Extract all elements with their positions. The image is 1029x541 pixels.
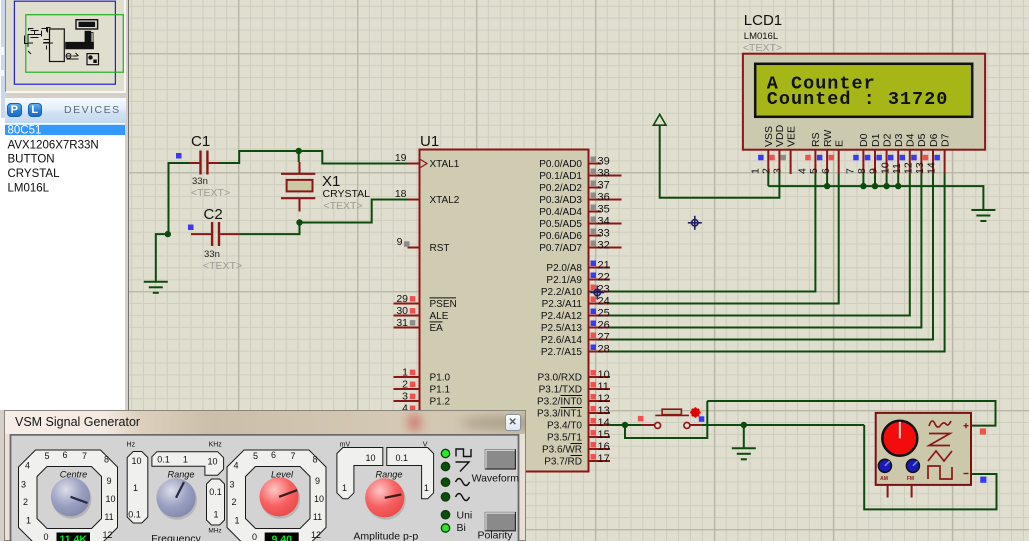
svg-text:3: 3 (229, 480, 234, 490)
svg-text:E: E (834, 140, 846, 147)
preview mini generator (87, 54, 99, 65)
svg-text:11: 11 (891, 163, 903, 174)
capacitor C2 (191, 222, 239, 246)
terminal marker square lcd pin 8 (865, 155, 871, 161)
node junction bus pin 8 (872, 183, 878, 189)
generator knob pointer (899, 422, 901, 439)
svg-text:D0: D0 (858, 133, 870, 147)
wire crystal top lead green part (298, 151, 300, 162)
svg-text:D1: D1 (870, 133, 882, 147)
svg-text:0: 0 (43, 532, 48, 541)
svg-text:3: 3 (402, 391, 408, 403)
lcd pin 1 stub (767, 150, 769, 174)
svg-text:8: 8 (104, 455, 109, 465)
svg-text:14: 14 (926, 162, 938, 174)
svg-text:6: 6 (820, 168, 832, 174)
svg-text:0.1: 0.1 (209, 487, 222, 497)
waveform icon sine1 (456, 479, 470, 486)
svg-text:2: 2 (761, 168, 773, 174)
dial plate Centre (19, 450, 118, 541)
generator waveform glyph sawtooth (929, 434, 950, 446)
svg-text:5: 5 (44, 451, 49, 461)
svg-text:P0.4/AD4: P0.4/AD4 (539, 207, 582, 218)
terminal marker red square button left (638, 416, 644, 422)
svg-text:D4: D4 (905, 133, 917, 147)
svg-text:32: 32 (598, 240, 610, 252)
svg-text:P1.0: P1.0 (430, 373, 451, 384)
preview mini button wires (66, 53, 78, 59)
pin 11 P3.1/TXD (589, 388, 611, 390)
svg-text:<TEXT>: <TEXT> (191, 187, 230, 199)
lcd pin 7 stub (862, 150, 864, 174)
close button (505, 414, 522, 431)
svg-text:11.4K: 11.4K (59, 533, 87, 541)
svg-text:P0.0/AD0: P0.0/AD0 (539, 159, 582, 170)
svg-text:P2.2/A10: P2.2/A10 (541, 287, 583, 298)
knob Centre (52, 479, 92, 519)
generator body (876, 413, 971, 485)
knob amplitude range red (366, 480, 406, 520)
svg-text:31: 31 (396, 317, 408, 329)
svg-text:6: 6 (271, 450, 276, 460)
svg-text:Polarity: Polarity (477, 530, 513, 541)
svg-text:12: 12 (903, 162, 915, 174)
preview mini crystal circuit (25, 28, 51, 50)
svg-text:KHz: KHz (209, 442, 223, 449)
wire lcd pin 8 to bus (874, 174, 876, 186)
terminal marker square lcd pin 2 (769, 155, 775, 161)
label plus terminal (964, 423, 969, 428)
pin 32 P0.7/AD7 (589, 247, 622, 249)
wire top feed to generator plus (707, 401, 995, 426)
svg-text:10: 10 (105, 494, 115, 504)
svg-text:Counted : 31720: Counted : 31720 (767, 89, 949, 110)
button Waveform (485, 450, 515, 469)
terminal marker square lcd pin 1 (758, 155, 764, 161)
svg-text:P2.7/A15: P2.7/A15 (541, 347, 583, 358)
panel body (11, 435, 519, 541)
svg-text:4: 4 (25, 461, 30, 471)
wire P2 row y=351.5 to lcd column x=944.6 (610, 174, 945, 352)
svg-text:1: 1 (342, 483, 347, 493)
svg-text:P3.4/T0: P3.4/T0 (547, 421, 582, 432)
svg-text:33: 33 (598, 228, 610, 240)
lcd pin 3 stub (790, 150, 792, 174)
svg-text:22: 22 (598, 272, 610, 284)
pin 3 stub (394, 400, 420, 402)
label DEVICES (64, 104, 121, 116)
svg-text:P2.6/A14: P2.6/A14 (541, 335, 583, 346)
svg-text:AM: AM (880, 476, 888, 482)
lcd pin 14 stub (944, 150, 946, 174)
svg-text:2: 2 (23, 497, 28, 507)
svg-text:P3.1/TXD: P3.1/TXD (539, 385, 582, 396)
component preview window (5, 0, 126, 93)
svg-text:0.1: 0.1 (157, 455, 170, 465)
waveform icon sawtooth (456, 462, 470, 472)
svg-text:19: 19 (395, 152, 407, 164)
terminal marker blue square button right (699, 416, 705, 422)
svg-text:P0.2/AD2: P0.2/AD2 (539, 183, 582, 194)
terminal marker blue square generator minus (980, 477, 986, 483)
generator knob AM blue (878, 459, 891, 472)
wire ground stem mid (743, 425, 745, 448)
frequency range plate left Hz strip (127, 452, 148, 524)
svg-text:Bi: Bi (457, 522, 466, 534)
svg-text:RW: RW (822, 130, 834, 147)
terminal marker square lcd pin 11 (900, 155, 906, 161)
terminal marker square lcd pin 9 (876, 155, 882, 161)
svg-text:Uni: Uni (457, 509, 473, 521)
svg-text:P3.2/INT0: P3.2/INT0 (537, 397, 582, 408)
pin 27 P2.6/A14 (589, 339, 611, 341)
wire P2 row y=315.5 to lcd column x=909.8 (610, 174, 910, 316)
svg-text:7: 7 (82, 451, 87, 461)
svg-text:BUTTON: BUTTON (8, 153, 55, 165)
pin 38 P0.1/AD1 (589, 175, 622, 177)
svg-text:Frequency: Frequency (151, 533, 201, 541)
wire button bypass loop (625, 401, 707, 438)
ground left (144, 282, 168, 293)
amplitude range plate right L (387, 448, 434, 499)
svg-text:D3: D3 (893, 133, 905, 147)
svg-text:D7: D7 (939, 133, 951, 147)
ground mid (732, 448, 756, 459)
svg-text:XTAL1: XTAL1 (430, 159, 460, 170)
lcd pin 5 stub (826, 150, 828, 174)
pin 16 P3.6/WR (589, 448, 611, 450)
svg-text:2: 2 (402, 379, 408, 391)
svg-text:10: 10 (314, 494, 324, 504)
pin 12 P3.2/INT0 (589, 400, 611, 402)
svg-text:Hz: Hz (127, 442, 136, 449)
svg-text:0.1: 0.1 (128, 510, 141, 520)
svg-text:12: 12 (311, 530, 321, 540)
wire to generator minus (864, 425, 996, 509)
svg-text:P1.1: P1.1 (430, 385, 451, 396)
svg-text:ALE: ALE (430, 311, 449, 322)
cursor crosshair near pin 23 (590, 286, 604, 300)
wire P2 row y=291.5 to lcd column x=815.4 (610, 174, 815, 292)
svg-text:1: 1 (424, 483, 429, 493)
svg-text:9: 9 (106, 476, 111, 486)
wire C1 right to XTAL1 pin19 (219, 151, 408, 164)
node junction bus pin 9 (883, 183, 889, 189)
knob Level red (261, 479, 301, 519)
wire lcd pin 5 to bus (826, 174, 828, 186)
pin 23 P2.2/A10 (589, 291, 611, 293)
crystal X1 (281, 162, 315, 212)
pin XTAL2 stub (408, 199, 420, 201)
button component (641, 409, 702, 428)
node junction bus pin 10 (895, 183, 901, 189)
generator waveform glyph square (928, 466, 952, 479)
terminal marker square lcd pin 13 (923, 155, 929, 161)
wire lcd pin 9 to bus (886, 174, 888, 186)
svg-text:12: 12 (102, 530, 112, 540)
svg-text:8: 8 (856, 168, 868, 174)
svg-text:3: 3 (21, 480, 26, 490)
preview mini bus blob (65, 42, 94, 49)
generator waveform glyph triangle (928, 451, 952, 461)
svg-text:RST: RST (430, 243, 450, 254)
lcd pin 12 stub (920, 150, 922, 174)
svg-text:1: 1 (183, 455, 188, 465)
svg-text:10: 10 (131, 456, 141, 466)
pin 14 P3.4/T0 (589, 424, 611, 426)
svg-text:12: 12 (598, 393, 610, 405)
button L (28, 103, 43, 118)
pin 24 P2.3/A11 (589, 303, 611, 305)
svg-text:33n: 33n (192, 176, 208, 187)
capacitor C1 (189, 151, 219, 175)
svg-text:P0.1/AD1: P0.1/AD1 (539, 171, 582, 182)
pin 13 P3.3/INT1 (589, 412, 611, 414)
wire P3.4 pin14 to button (610, 424, 641, 426)
svg-text:38: 38 (598, 168, 610, 180)
svg-text:Range: Range (167, 469, 194, 479)
waveform icon sine2 (456, 494, 470, 501)
node junction crystal top (296, 148, 302, 154)
devices header (5, 98, 126, 123)
lcd pin 6 stub (838, 150, 840, 174)
lcd pin 4 stub (814, 150, 816, 174)
svg-text:13: 13 (914, 162, 926, 174)
svg-text:1: 1 (26, 516, 31, 526)
wire ground bus under lcd (768, 186, 983, 210)
pin 22 P2.1/A9 (589, 279, 611, 281)
svg-text:9: 9 (315, 476, 320, 486)
lcd pin 11 stub (909, 150, 911, 174)
pin 15 P3.5/T1 (589, 436, 611, 438)
devices list (5, 123, 125, 411)
terminal marker square lcd pin 6 (829, 155, 835, 161)
svg-text:XTAL2: XTAL2 (430, 195, 460, 206)
frequency range plate top L-shape (152, 452, 224, 476)
wire P2 row y=303.5 to lcd column x=838.7 (610, 174, 839, 304)
svg-text:MHz: MHz (208, 528, 221, 535)
waveform icon square (456, 449, 471, 457)
terminal marker gray square pin 9 (404, 241, 410, 247)
preview mini lcd (76, 20, 98, 29)
preview mini chip U1 (50, 29, 65, 62)
svg-text:10: 10 (365, 453, 375, 463)
lcd pin 8 stub (874, 150, 876, 174)
svg-text:P2.4/A12: P2.4/A12 (541, 311, 583, 322)
wire lcd pin 7 to bus (862, 174, 864, 186)
svg-text:<TEXT>: <TEXT> (743, 42, 782, 54)
display Level value 9.40 (265, 533, 299, 541)
svg-text:15: 15 (598, 429, 610, 441)
svg-text:26: 26 (598, 320, 610, 332)
wire P2 row y=327.5 to lcd column x=921.4 (610, 174, 921, 328)
svg-text:37: 37 (598, 180, 610, 192)
led column (441, 449, 449, 457)
amplitude range plate left L (337, 448, 383, 499)
svg-text:1: 1 (402, 367, 408, 379)
dial plate Level (227, 450, 326, 541)
selected row 80C51 (5, 124, 125, 134)
terminal marker blue square at C1 (176, 153, 182, 159)
label minus terminal (964, 473, 969, 475)
svg-text:Amplitude p-p: Amplitude p-p (353, 531, 418, 541)
generator main knob red (882, 421, 917, 456)
svg-text:17: 17 (598, 453, 610, 465)
preview green border (26, 15, 124, 72)
pin 2 stub (394, 388, 420, 390)
svg-text:11: 11 (598, 381, 609, 393)
generator knob FM blue (906, 459, 919, 472)
svg-text:9: 9 (868, 168, 880, 174)
svg-text:C2: C2 (204, 206, 223, 223)
pin 1 stub (394, 376, 420, 378)
svg-text:P3.3/INT1: P3.3/INT1 (537, 409, 582, 420)
svg-text:30: 30 (396, 305, 408, 317)
svg-text:9: 9 (397, 236, 403, 248)
svg-text:36: 36 (598, 192, 610, 204)
svg-text:EA: EA (430, 323, 444, 334)
wire button right to ground run (702, 424, 865, 426)
svg-text:10: 10 (207, 457, 217, 467)
svg-text:CRYSTAL: CRYSTAL (323, 188, 371, 200)
svg-text:5: 5 (253, 451, 258, 461)
terminal marker square lcd pin 14 (934, 155, 940, 161)
svg-text:14: 14 (598, 417, 610, 429)
pin 25 P2.4/A12 (589, 315, 611, 317)
svg-text:7: 7 (290, 451, 295, 461)
svg-text:Waveform: Waveform (472, 473, 520, 485)
button actuator red star (690, 407, 701, 418)
preview blue border (14, 1, 115, 84)
display Centre value 11.4K (57, 533, 91, 541)
svg-text:18: 18 (395, 188, 407, 200)
svg-text:D2: D2 (881, 133, 893, 147)
svg-text:P2.1/A9: P2.1/A9 (546, 275, 582, 286)
svg-text:LM016L: LM016L (744, 31, 778, 42)
pin 33 P0.6/AD6 (589, 235, 602, 237)
svg-text:13: 13 (598, 405, 610, 417)
lcd screen (755, 64, 972, 117)
wire crystal bottom to XTAL2 pin18 (300, 200, 408, 223)
node junction crystal bottom (296, 219, 302, 225)
node junction bus pin 7 (860, 183, 866, 189)
svg-text:P3.6/WR: P3.6/WR (542, 445, 582, 456)
svg-text:4: 4 (233, 461, 238, 471)
lcd pin 13 stub (932, 150, 934, 174)
svg-text:2: 2 (231, 497, 236, 507)
overbar WR (571, 443, 583, 445)
terminal marker square lcd pin 10 (888, 155, 894, 161)
terminal marker square lcd pin 7 (853, 155, 859, 161)
svg-text:8: 8 (312, 455, 317, 465)
svg-text:6: 6 (62, 450, 67, 460)
button Polarity (485, 513, 515, 531)
node junction button left (622, 422, 628, 428)
power arrow symbol (653, 114, 666, 125)
svg-text:<TEXT>: <TEXT> (324, 200, 363, 212)
svg-text:P3.5/T1: P3.5/T1 (547, 433, 582, 444)
wire lcd pin 10 to bus (897, 174, 899, 186)
svg-text:11: 11 (313, 512, 322, 522)
svg-text:Range: Range (375, 469, 402, 479)
svg-text:P2.3/A11: P2.3/A11 (542, 299, 583, 310)
ground right (971, 210, 995, 221)
cursor crosshair mid schematic (688, 216, 702, 230)
clock input arrow XTAL1 (421, 160, 428, 168)
pin 37 P0.2/AD2 (589, 187, 602, 189)
svg-text:P0.6/AD6: P0.6/AD6 (539, 231, 582, 242)
svg-text:D6: D6 (928, 133, 940, 147)
svg-text:33n: 33n (204, 249, 220, 260)
terminal marker square lcd pin 4 (805, 155, 811, 161)
svg-text:7: 7 (845, 168, 857, 174)
pin 35 P0.4/AD4 (589, 211, 602, 213)
pin 10 P3.0/RXD (589, 376, 611, 378)
pin 39 P0.0/AD0 (589, 163, 602, 165)
VSM Signal Generator window (4, 410, 526, 541)
svg-text:34: 34 (598, 216, 610, 228)
svg-text:VDD: VDD (774, 124, 786, 147)
svg-text:P0.3/AD3: P0.3/AD3 (539, 195, 582, 206)
wire lcd pin2 VDD to power (660, 125, 780, 198)
frequency range plate right MHz strip (207, 479, 225, 525)
svg-text:10: 10 (598, 369, 610, 381)
pin 26 P2.5/A13 (589, 327, 611, 329)
svg-text:LCD1: LCD1 (744, 12, 782, 29)
node junction ground mid (741, 422, 747, 428)
svg-text:P3.0/RXD: P3.0/RXD (538, 373, 582, 384)
wire lcd pin1 VSS down to bus (767, 174, 769, 186)
wire P2 row y=339.5 to lcd column x=933.0 (610, 174, 933, 340)
svg-text:1: 1 (133, 483, 138, 493)
pin 30 stub (394, 315, 420, 317)
svg-text:16: 16 (598, 441, 610, 453)
svg-text:P2.5/A13: P2.5/A13 (541, 323, 583, 334)
svg-text:<TEXT>: <TEXT> (203, 260, 242, 272)
svg-text:VEE: VEE (785, 126, 797, 147)
pin 29 stub (394, 303, 420, 305)
lcd pin 2 stub (778, 150, 780, 174)
overbar RD (571, 455, 583, 457)
generator bottom pin FM stub (911, 485, 913, 498)
svg-text:0: 0 (252, 532, 257, 541)
svg-text:29: 29 (396, 293, 408, 305)
overbar INT1 (561, 407, 583, 409)
pin XTAL1 stub (408, 163, 420, 165)
svg-text:P0.7/AD7: P0.7/AD7 (539, 243, 582, 254)
generator bottom pin AM stub (887, 485, 889, 498)
terminal marker square lcd pin 3 (780, 155, 786, 161)
svg-text:RS: RS (810, 132, 822, 147)
svg-text:39: 39 (598, 156, 610, 168)
svg-text:11: 11 (104, 512, 113, 522)
svg-text:P3.7/RD: P3.7/RD (544, 457, 582, 468)
pin 17 P3.7/RD (589, 460, 611, 462)
svg-text:35: 35 (598, 204, 610, 216)
preview mini wire left down (28, 35, 53, 54)
overbar INT0 (561, 395, 583, 397)
svg-text:LM016L: LM016L (8, 182, 50, 194)
lcd LCD1 LM016L body (743, 54, 985, 150)
svg-text:U1: U1 (420, 133, 439, 150)
op U1 80C51 microcontroller body (420, 150, 589, 472)
svg-text:C1: C1 (191, 133, 210, 150)
pin 21 P2.0/A8 (589, 267, 611, 269)
svg-text:P0.5/AD5: P0.5/AD5 (539, 219, 582, 230)
svg-text:3: 3 (772, 168, 784, 174)
svg-text:P2.0/A8: P2.0/A8 (546, 263, 582, 274)
svg-text:AVX1206X7R33N: AVX1206X7R33N (8, 139, 99, 151)
